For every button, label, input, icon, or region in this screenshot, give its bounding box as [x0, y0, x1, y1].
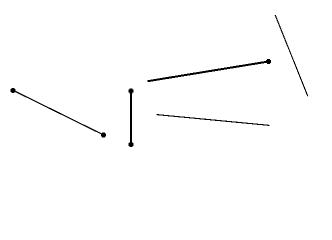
wire: segment 5 (steep right diagonal) — [275, 15, 308, 96]
node: segment 2 bottom endpoint dot — [129, 142, 134, 147]
node: segment 2 top endpoint dot — [129, 89, 134, 94]
wire: segment 4 (thin lower diagonal) — [157, 115, 270, 126]
wire: segment 2 (vertical) — [130, 91, 132, 145]
node: segment 1 right endpoint dot — [101, 133, 106, 138]
wire: segment 3 (thick upper diagonal) — [148, 62, 269, 82]
node: segment 3 right endpoint dot — [266, 59, 271, 64]
wire: segment 1 (upper-left diagonal) — [13, 90, 103, 135]
node: segment 1 left endpoint dot — [11, 88, 16, 93]
